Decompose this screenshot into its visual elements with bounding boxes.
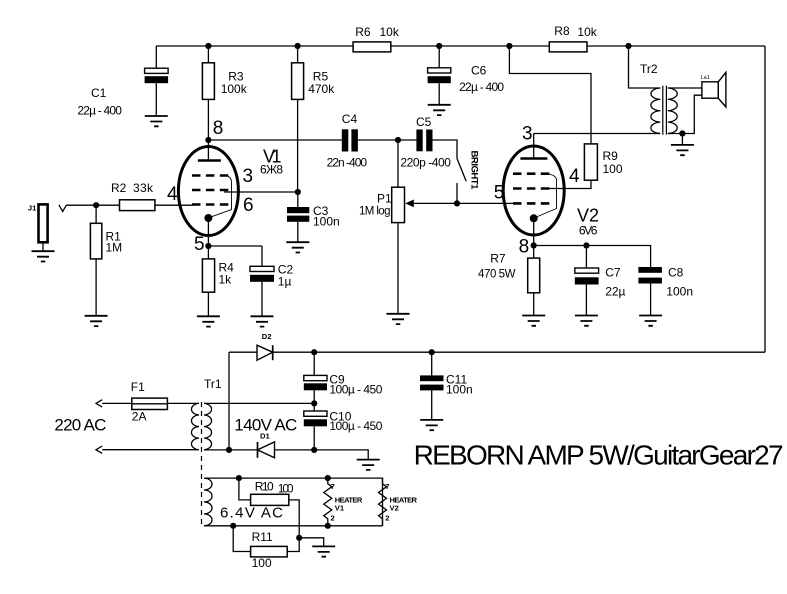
svg-text:C6: C6 bbox=[471, 64, 487, 78]
resistor R1 bbox=[95, 205, 97, 316]
wire HV secondary top bbox=[204, 402, 314, 404]
ground doubler rail bbox=[357, 460, 380, 470]
wire V2 plate to Tr2 bbox=[534, 133, 661, 135]
switch BRIGHT1 bbox=[457, 159, 466, 182]
node junction HV bottom bbox=[226, 447, 232, 453]
svg-text:C1: C1 bbox=[91, 86, 107, 100]
tube V2 bbox=[503, 146, 564, 235]
capacitor C5 bbox=[416, 130, 422, 152]
wire Tr2 secondary bottom to speaker bbox=[668, 95, 702, 133]
svg-text:7: 7 bbox=[385, 482, 389, 491]
svg-text:100n: 100n bbox=[446, 383, 473, 397]
node junction C9 C10 bbox=[311, 400, 317, 406]
svg-text:C5: C5 bbox=[416, 115, 432, 129]
svg-text:100k: 100k bbox=[221, 82, 248, 96]
capacitor C10 bbox=[304, 411, 327, 416]
node junction R1 input bbox=[93, 202, 99, 208]
svg-text:2A: 2A bbox=[132, 410, 147, 424]
resistor R6 bbox=[353, 42, 391, 52]
ground C1 bbox=[145, 116, 168, 126]
svg-text:1k: 1k bbox=[219, 273, 233, 287]
svg-text:3: 3 bbox=[243, 166, 254, 187]
svg-text:22µ - 400: 22µ - 400 bbox=[459, 80, 504, 94]
wire lower doubler rail bbox=[204, 450, 368, 460]
svg-text:6.4V AC: 6.4V AC bbox=[220, 505, 283, 522]
svg-text:Tr1: Tr1 bbox=[204, 377, 222, 391]
svg-text:220 AC: 220 AC bbox=[54, 416, 106, 435]
svg-text:R6: R6 bbox=[355, 25, 371, 39]
resistor R5 bbox=[297, 46, 299, 192]
svg-text:1µ: 1µ bbox=[278, 275, 292, 289]
resistor R11 bbox=[251, 546, 288, 557]
svg-text:100µ - 450: 100µ - 450 bbox=[329, 383, 382, 397]
svg-text:33k: 33k bbox=[133, 181, 154, 195]
wire B+ top rail bbox=[156, 45, 765, 47]
svg-text:2: 2 bbox=[331, 513, 335, 522]
node junction D2 C9 bbox=[311, 349, 317, 355]
svg-text:R9: R9 bbox=[603, 149, 619, 163]
svg-text:7: 7 bbox=[331, 482, 335, 491]
svg-text:220p -400: 220p -400 bbox=[400, 156, 451, 170]
node junction R11 left bbox=[230, 523, 236, 529]
capacitor C3 bbox=[297, 192, 299, 242]
svg-text:100: 100 bbox=[252, 556, 272, 570]
capacitor C2 bbox=[208, 246, 262, 316]
wire input to R2 bbox=[67, 204, 120, 206]
svg-text:4: 4 bbox=[167, 184, 178, 205]
svg-text:470 5W: 470 5W bbox=[478, 269, 516, 281]
svg-text:P1: P1 bbox=[377, 192, 392, 206]
diode D2 bbox=[257, 345, 273, 360]
ground Tr2 bbox=[671, 145, 694, 155]
ground C2 bbox=[251, 316, 274, 326]
node junction heater V1 top bbox=[325, 475, 331, 481]
svg-text:V1: V1 bbox=[335, 504, 345, 513]
node junction 6.4V top R10 bbox=[236, 475, 242, 481]
wire wiper to V2 pin5 bbox=[457, 202, 518, 204]
ground R1 bbox=[85, 316, 108, 326]
ground C3 bbox=[286, 242, 309, 252]
capacitor C1 bbox=[155, 46, 157, 68]
node input arrow bbox=[59, 205, 67, 212]
svg-text:6V6: 6V6 bbox=[579, 224, 598, 238]
svg-text:5: 5 bbox=[194, 234, 205, 255]
svg-text:C4: C4 bbox=[342, 112, 358, 126]
heater V2 bbox=[379, 478, 387, 526]
resistor R2 bbox=[120, 200, 155, 211]
svg-text:8: 8 bbox=[213, 118, 224, 139]
ground C7 bbox=[575, 316, 598, 326]
node junction V1 plate bbox=[205, 137, 211, 143]
wire right edge bbox=[764, 46, 766, 352]
svg-text:3: 3 bbox=[522, 124, 533, 145]
node junction C4/C5/P1 bbox=[395, 137, 401, 143]
ground J1 bbox=[32, 251, 55, 261]
svg-text:8: 8 bbox=[519, 237, 530, 258]
wire mains bottom bbox=[102, 449, 199, 451]
svg-text:F1: F1 bbox=[131, 380, 145, 394]
svg-text:V2: V2 bbox=[390, 504, 399, 513]
node junction B+ Tr2 bbox=[625, 43, 631, 49]
svg-text:10k: 10k bbox=[577, 25, 597, 39]
wire plate V1 to C4 bbox=[208, 139, 341, 141]
wire heater rail bottom bbox=[204, 525, 383, 527]
ground R4 bbox=[197, 316, 220, 326]
potentiometer P1 bbox=[397, 140, 399, 314]
capacitor C4 bbox=[342, 129, 349, 151]
svg-text:V2: V2 bbox=[577, 206, 599, 226]
capacitor C9 bbox=[313, 352, 315, 411]
svg-text:10k: 10k bbox=[380, 25, 400, 39]
resistor R3 bbox=[207, 46, 209, 140]
diode D1 bbox=[258, 442, 275, 458]
svg-text:R2: R2 bbox=[111, 181, 127, 195]
wire V1 pin6 to node bbox=[224, 191, 298, 193]
wire bottom HV rail bbox=[229, 351, 765, 353]
svg-text:BRIGHT1: BRIGHT1 bbox=[469, 151, 480, 191]
svg-text:1M: 1M bbox=[106, 241, 123, 255]
svg-text:Tr2: Tr2 bbox=[640, 62, 658, 76]
svg-text:22µ - 400: 22µ - 400 bbox=[77, 104, 122, 118]
svg-text:R7: R7 bbox=[490, 252, 506, 266]
wire R2 to V1 pin4 bbox=[155, 204, 193, 206]
ground heater bbox=[312, 546, 335, 556]
resistor R4 bbox=[207, 246, 209, 316]
svg-text:La1: La1 bbox=[701, 75, 710, 81]
svg-text:6: 6 bbox=[243, 195, 254, 216]
node mains arrow top bbox=[96, 400, 102, 407]
node junction bright switch bbox=[454, 200, 460, 206]
svg-text:D2: D2 bbox=[262, 332, 272, 341]
capacitor C6 bbox=[438, 46, 440, 68]
node junction B+ C6 bbox=[436, 43, 442, 49]
resistor R7 bbox=[533, 246, 535, 316]
capacitor C8 bbox=[638, 267, 662, 273]
node V2 cathode junction bbox=[531, 242, 537, 248]
resistor R8 bbox=[549, 42, 587, 52]
wire Tr2 secondary top to speaker bbox=[668, 87, 702, 89]
svg-text:REBORN AMP 5W/GuitarGear27: REBORN AMP 5W/GuitarGear27 bbox=[414, 439, 784, 470]
svg-text:2: 2 bbox=[385, 513, 389, 522]
speaker La1 bbox=[702, 82, 718, 98]
node junction B+ R5 bbox=[295, 43, 301, 49]
svg-text:R11: R11 bbox=[252, 530, 273, 544]
svg-text:5: 5 bbox=[494, 183, 505, 204]
svg-text:1M log: 1M log bbox=[359, 206, 391, 218]
node Tr2 secondary ground bbox=[679, 130, 685, 136]
svg-text:C7: C7 bbox=[605, 265, 621, 279]
svg-text:100n: 100n bbox=[666, 285, 693, 299]
node junction B+ screen feed bbox=[506, 43, 512, 49]
wire C4 to C5 bbox=[358, 139, 417, 141]
svg-text:100: 100 bbox=[278, 482, 294, 496]
ground P1 bbox=[387, 314, 410, 324]
svg-text:R10: R10 bbox=[255, 480, 274, 494]
resistor R10 bbox=[239, 478, 251, 500]
wire heater center tap ground bbox=[299, 538, 324, 547]
fuse F1 bbox=[102, 402, 132, 404]
svg-text:22µ: 22µ bbox=[605, 285, 625, 299]
svg-text:470k: 470k bbox=[308, 82, 335, 96]
svg-text:100n: 100n bbox=[313, 215, 340, 229]
capacitor C7 bbox=[585, 246, 587, 316]
capacitor C11 bbox=[431, 352, 433, 420]
node junction C11 bbox=[429, 349, 435, 355]
wire D2/D1 vertical link bbox=[228, 352, 230, 450]
connector J1 bbox=[39, 204, 48, 242]
svg-text:100: 100 bbox=[603, 162, 623, 176]
wire C5 to switch bbox=[433, 140, 458, 159]
svg-text:100µ - 450: 100µ - 450 bbox=[329, 419, 382, 433]
ground C11 bbox=[420, 420, 443, 430]
wire cathode rail bbox=[534, 246, 651, 268]
tube V1 bbox=[178, 147, 238, 236]
ground R7 bbox=[522, 316, 545, 326]
node junction heater V1 bottom bbox=[325, 523, 331, 529]
node junction R10 R11 ground bbox=[296, 535, 302, 541]
ground C8 bbox=[639, 316, 662, 326]
node mains arrow bottom bbox=[96, 446, 102, 453]
wire B+ to R9 bbox=[509, 46, 591, 144]
svg-text:C8: C8 bbox=[668, 265, 684, 279]
svg-text:J1: J1 bbox=[28, 204, 37, 213]
node junction C10 D1 bbox=[311, 447, 317, 453]
wire heater rail top bbox=[204, 478, 383, 526]
node junction C7 bbox=[583, 242, 589, 248]
svg-text:140V AC: 140V AC bbox=[234, 416, 297, 435]
resistor R9 bbox=[584, 144, 597, 180]
wire R9 to V2 pin4 bbox=[548, 180, 591, 188]
svg-text:6Ж8: 6Ж8 bbox=[260, 163, 283, 177]
svg-text:22n -400: 22n -400 bbox=[327, 156, 368, 170]
node C3/R5/pin6 bbox=[295, 189, 301, 195]
heater V1 bbox=[324, 478, 332, 526]
node V1 cathode pin5 bbox=[205, 243, 211, 249]
svg-text:4: 4 bbox=[569, 166, 580, 187]
svg-text:R8: R8 bbox=[554, 24, 570, 38]
node junction B+ R3 bbox=[205, 43, 211, 49]
ground C6 bbox=[428, 105, 451, 115]
